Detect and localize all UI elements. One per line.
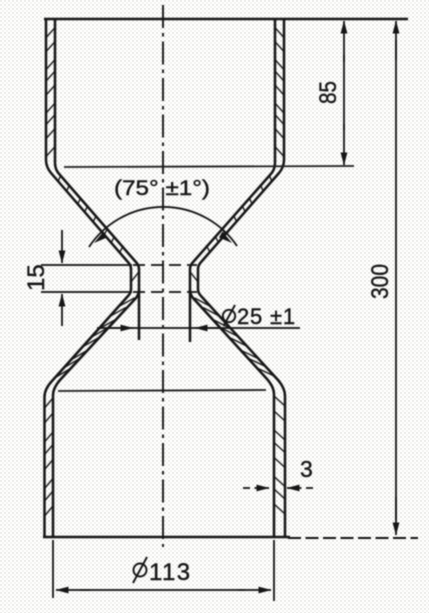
waist hidden edge top bbox=[133, 264, 197, 266]
wall right outer bbox=[198, 19, 285, 536]
dim 15 extension top bbox=[41, 264, 132, 266]
wall right inner bbox=[190, 19, 275, 342]
dim 85 arrow top bbox=[343, 21, 345, 62]
dim 113 arrow right bbox=[238, 589, 271, 591]
angle arc 75deg bbox=[89, 207, 237, 247]
dim 300 arrow bottom bbox=[395, 497, 397, 535]
svg-text:15: 15 bbox=[23, 264, 50, 291]
dim 15 arrow lower bbox=[61, 294, 63, 326]
svg-text:25 ±1: 25 ±1 bbox=[237, 304, 296, 329]
dim 113 extension left bbox=[52, 540, 54, 598]
bottom rim extension dashes bbox=[288, 537, 418, 539]
bottom rim bbox=[43, 536, 290, 539]
top rim / extension line bbox=[44, 18, 408, 21]
svg-text:300: 300 bbox=[367, 264, 394, 299]
dim 3 arrow right bbox=[287, 487, 313, 489]
svg-text:3: 3 bbox=[300, 456, 313, 482]
dim 25 line bbox=[97, 327, 300, 329]
vessel outline bbox=[45, 19, 286, 536]
dim 85 arrow bottom bbox=[343, 124, 345, 165]
dim 25 extension left bbox=[138, 292, 140, 340]
wall right inner lower bbox=[190, 290, 274, 536]
arc arrowhead left bbox=[94, 232, 107, 244]
dim 25 arrow right bbox=[195, 327, 222, 329]
dim 113 line bbox=[80, 589, 245, 591]
svg-text:113: 113 bbox=[149, 559, 191, 586]
inner transition edge bottom bbox=[58, 390, 266, 391]
svg-text:85: 85 bbox=[315, 81, 342, 104]
dim 15 extension bottom bbox=[41, 291, 132, 293]
dim 3 arrow left bbox=[243, 487, 269, 489]
dim 85 line bbox=[343, 55, 345, 130]
label phi25 symbol bbox=[223, 305, 235, 326]
wall left outer bbox=[45, 19, 132, 536]
svg-text:(75° ±1°): (75° ±1°) bbox=[114, 177, 210, 200]
wall left inner lower bbox=[53, 290, 139, 536]
dim 25 arrow left bbox=[108, 327, 133, 329]
arc arrowhead right bbox=[219, 232, 232, 244]
waist hidden edge bottom bbox=[133, 291, 197, 293]
dim 113 arrow left bbox=[56, 589, 90, 591]
centerline bbox=[162, 5, 164, 547]
label phi113 symbol bbox=[133, 557, 147, 583]
dim 300 line bbox=[395, 40, 397, 520]
inner transition edge top bbox=[64, 166, 354, 167]
dim 113 extension right bbox=[273, 540, 275, 601]
dim 300 arrow top bbox=[395, 21, 397, 60]
dim 15 arrow upper bbox=[61, 230, 63, 263]
hatch ticks bbox=[45, 28, 286, 516]
wall left inner bbox=[55, 19, 139, 340]
dim 25 extension right bbox=[189, 292, 191, 342]
